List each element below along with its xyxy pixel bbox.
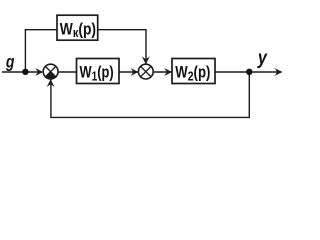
svg-text:y: y: [257, 47, 268, 69]
svg-text:Wк(p): Wк(p): [60, 20, 96, 40]
svg-text:W1(p): W1(p): [80, 64, 114, 84]
svg-text:g: g: [5, 53, 15, 72]
svg-text:W2(p): W2(p): [175, 63, 210, 83]
